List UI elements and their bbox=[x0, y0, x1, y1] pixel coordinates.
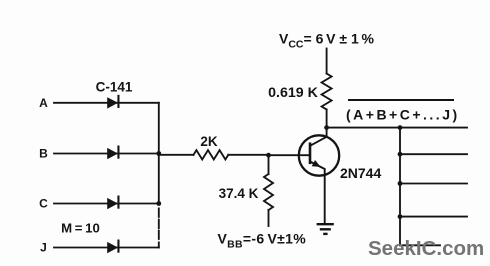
label output overline bbox=[348, 99, 454, 101]
node base junction bbox=[266, 153, 271, 158]
svg-text:0.619 K: 0.619 K bbox=[268, 85, 318, 101]
resistor R2 37.4K bbox=[264, 174, 273, 210]
wire input C bbox=[54, 203, 159, 205]
svg-text:B: B bbox=[39, 147, 48, 161]
resistor R3 0.619K bbox=[322, 74, 332, 110]
wire base lead bbox=[269, 154, 311, 156]
wire 37.4K bottom lead to VBB bbox=[268, 210, 270, 226]
node junction C bbox=[156, 201, 161, 206]
svg-text:VCC= 6 V ± 1 %: VCC= 6 V ± 1 % bbox=[279, 31, 375, 51]
wire 37.4K top lead bbox=[268, 155, 270, 174]
wire output horizontal bbox=[327, 127, 467, 129]
wire output branch 1 bbox=[400, 153, 467, 155]
wire 0.619K bottom lead to collector node bbox=[326, 110, 328, 128]
svg-text:SeekIC.com: SeekIC.com bbox=[368, 237, 484, 260]
svg-text:37.4 K: 37.4 K bbox=[219, 186, 259, 201]
wire bus to J corner bbox=[158, 242, 160, 247]
wire collector vertical bbox=[326, 128, 328, 137]
node junction B bbox=[156, 151, 161, 156]
diode CR4 (input J) bbox=[107, 240, 119, 254]
svg-text:VBB=-6 V±1%: VBB=-6 V±1% bbox=[218, 231, 307, 251]
svg-text:M = 10: M = 10 bbox=[61, 221, 100, 236]
wire VCC lead bbox=[326, 49, 328, 74]
svg-text:2K: 2K bbox=[200, 134, 218, 149]
node output bus top junction bbox=[398, 125, 403, 130]
svg-text:J: J bbox=[40, 241, 47, 255]
node output branch 1 junction bbox=[398, 152, 403, 157]
wire output branch 3 bbox=[400, 216, 467, 218]
wire dashed bus segment bbox=[158, 208, 160, 239]
wire input bus vertical bbox=[158, 103, 160, 204]
wire output bus vertical bbox=[399, 128, 401, 246]
wire input B bbox=[54, 153, 159, 155]
transistor Q1 collector stroke bbox=[310, 137, 327, 146]
transistor Q1 emitter stroke bbox=[310, 162, 325, 224]
node output branch 3 junction bbox=[398, 214, 403, 219]
svg-text:C: C bbox=[39, 197, 48, 211]
ground bbox=[317, 224, 334, 234]
node output branch 2 junction bbox=[398, 181, 403, 186]
wire output branch 2 bbox=[400, 183, 467, 185]
wire 2K right lead to base node bbox=[228, 154, 268, 156]
transistor Q1 emitter arrow bbox=[312, 160, 321, 167]
diode CR3 (input C) bbox=[107, 196, 119, 210]
svg-text:C-141: C-141 bbox=[96, 80, 133, 95]
transistor Q1 2N744 circle bbox=[299, 135, 339, 175]
node collector junction bbox=[324, 125, 329, 130]
svg-text:A: A bbox=[39, 96, 48, 110]
svg-text:2N744: 2N744 bbox=[340, 165, 381, 181]
wire input J bbox=[54, 247, 159, 249]
wire input A bbox=[54, 102, 159, 104]
wire 2K left lead bbox=[159, 154, 194, 156]
diode CR1 (input A) bbox=[107, 95, 119, 109]
diode CR2 (input B) bbox=[107, 146, 119, 160]
resistor R1 2K bbox=[194, 150, 229, 159]
svg-text:(A+B+C+...J): (A+B+C+...J) bbox=[346, 107, 460, 123]
wire output branch 4 corner bbox=[400, 244, 440, 246]
transistor Q1 base bar bbox=[309, 142, 312, 164]
